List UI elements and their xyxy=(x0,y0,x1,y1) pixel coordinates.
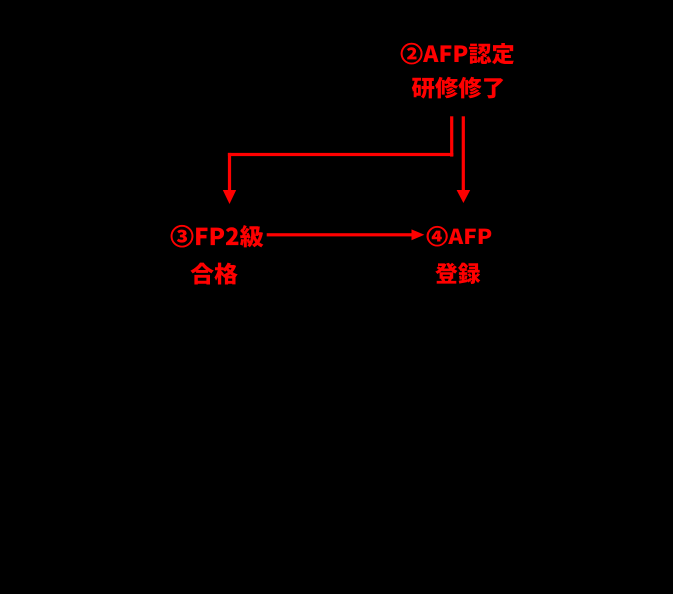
arrowhead: right onto ④AFP xyxy=(412,229,425,240)
arrowhead: down onto ④AFP xyxy=(457,190,471,203)
wire: vertical line from 研修修了 down to bend (left branch) xyxy=(450,116,453,156)
wire: vertical line from 研修修了 down to ④AFP (right branch) xyxy=(462,116,465,190)
text 研修修了 (top block line 2) xyxy=(412,77,504,99)
arrowhead: down onto ③FP2級 xyxy=(223,190,236,204)
text ②AFP認定 (top block line 1) xyxy=(401,43,514,64)
wire: horizontal line of left branch bend xyxy=(228,153,453,156)
wire: horizontal line from ③FP2級 to ④AFP xyxy=(267,233,413,236)
text ③FP2級 (left block line 1) xyxy=(171,225,264,247)
text 合格 (left block line 2) xyxy=(190,263,237,285)
text 登録 (right block line 2) xyxy=(435,263,480,284)
text ④AFP (right block line 1) xyxy=(427,226,492,246)
wire: vertical line down to ③FP2級 xyxy=(228,153,231,191)
